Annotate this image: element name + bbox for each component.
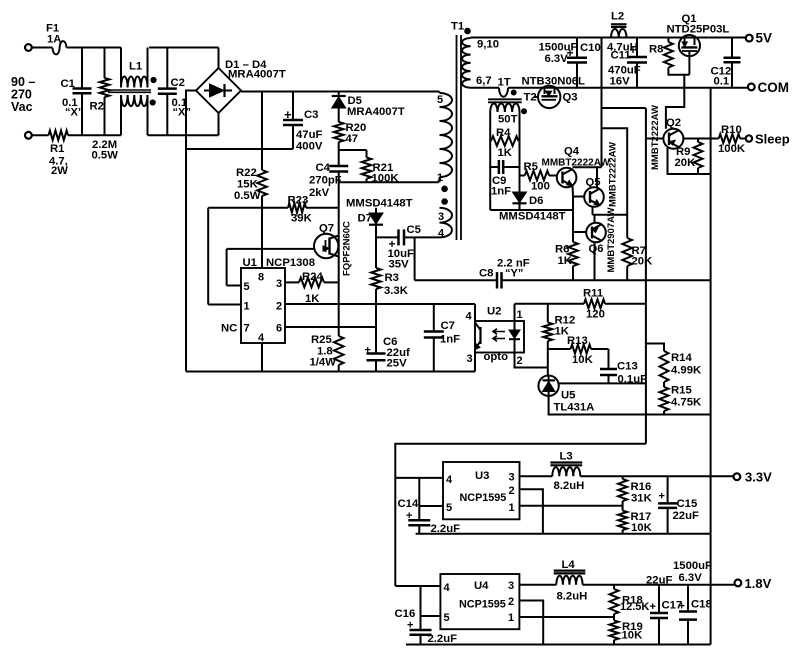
fuse F1: [53, 41, 67, 54]
T2 dot bottom: [522, 109, 527, 114]
AC input terminal top: [25, 44, 32, 51]
bridge rectifier D1-D4: [196, 68, 241, 113]
svg-text:1: 1: [508, 612, 514, 624]
transistor Q4: [557, 168, 577, 188]
resistor R3: [375, 237, 377, 268]
svg-text:C5: C5: [407, 224, 421, 236]
svg-text:4: 4: [466, 311, 473, 323]
svg-text:C1: C1: [61, 78, 75, 90]
svg-text:Q7: Q7: [319, 223, 334, 235]
transistor Q2: [663, 129, 683, 149]
T1 dots mid: [442, 186, 448, 192]
svg-text:R4: R4: [496, 127, 511, 139]
resistor R13 wire: [548, 348, 571, 350]
svg-text:20K: 20K: [632, 256, 654, 268]
svg-text:15K: 15K: [237, 179, 259, 191]
svg-text:U5: U5: [561, 390, 575, 402]
T2 dot top: [511, 90, 516, 95]
svg-text:MMBT2222AW: MMBT2222AW: [608, 142, 619, 207]
svg-text:50T: 50T: [498, 114, 518, 126]
svg-text:U1: U1: [243, 257, 257, 269]
inductor L4: [554, 569, 586, 571]
svg-text:12.5K: 12.5K: [620, 601, 649, 613]
svg-text:2: 2: [517, 355, 523, 367]
resistor R17: [622, 506, 624, 511]
svg-text:U4: U4: [474, 580, 489, 592]
svg-text:+: +: [630, 43, 637, 57]
svg-text:5: 5: [437, 94, 443, 106]
svg-text:L1: L1: [129, 61, 142, 73]
inductor L3: [550, 461, 582, 463]
wire U4 pin2: [519, 601, 543, 645]
wire T1 pin4 to C8 line: [415, 236, 440, 238]
resistor R7: [622, 238, 632, 266]
svg-text:R5: R5: [524, 161, 538, 173]
resistor R20: [334, 122, 344, 142]
MOSFET Q1: [679, 35, 700, 56]
svg-text:NCP1308: NCP1308: [266, 257, 315, 269]
wire R20 to R21: [338, 142, 340, 150]
svg-text:2: 2: [276, 301, 282, 313]
svg-text:C15: C15: [677, 498, 698, 510]
wire R14 top: [646, 344, 664, 352]
wire U5 ref: [559, 382, 646, 384]
svg-text:7: 7: [244, 323, 250, 335]
wire U3 pin4: [395, 477, 443, 479]
svg-text:0.5W: 0.5W: [92, 150, 119, 162]
svg-text:5: 5: [446, 502, 452, 514]
wire opto pin3: [474, 353, 476, 372]
svg-text:NCP1595: NCP1595: [460, 492, 507, 504]
svg-text:2: 2: [508, 596, 514, 608]
wire R7 top: [602, 128, 628, 238]
svg-text:10K: 10K: [631, 522, 653, 534]
svg-text:NTD25P03L: NTD25P03L: [667, 24, 730, 36]
wire driver supply: [601, 38, 603, 168]
svg-text:+: +: [567, 46, 574, 60]
wire T1 pin1 line: [339, 181, 439, 183]
wire bridge plus rail: [241, 91, 440, 93]
capacitor C13: [608, 349, 610, 369]
transformer T1 core: [456, 35, 458, 240]
secondary top rail: [471, 37, 746, 39]
svg-text:6,7: 6,7: [476, 75, 492, 87]
wire Q1 gate: [688, 56, 690, 74]
resistor R2: [104, 48, 106, 79]
svg-text:C10: C10: [580, 42, 601, 54]
resistor R22: [261, 92, 263, 171]
optocoupler U2 box: [475, 321, 524, 353]
transformer T1 primary: [439, 92, 441, 94]
wire Q2 out: [683, 138, 718, 140]
svg-text:2: 2: [509, 485, 515, 497]
resistor R5: [525, 171, 549, 181]
wire U1 pin4: [261, 343, 263, 372]
svg-text:Q4: Q4: [564, 146, 580, 158]
terminal 1.8V: [735, 580, 742, 587]
svg-text:C16: C16: [395, 608, 416, 620]
svg-text:1K: 1K: [558, 255, 573, 267]
MOSFET Q3: [538, 86, 560, 108]
svg-text:6: 6: [276, 323, 282, 335]
svg-text:+: +: [659, 491, 665, 503]
resistor R6: [572, 240, 574, 242]
resistor R25: [338, 282, 340, 336]
wire U1 pin6 line: [285, 326, 376, 328]
capacitor C5: [376, 236, 399, 238]
svg-text:Q3: Q3: [563, 92, 578, 104]
svg-text:3.3V: 3.3V: [745, 470, 772, 485]
svg-text:C11: C11: [611, 50, 631, 62]
primary ground bus: [186, 371, 475, 373]
svg-text:“X”: “X”: [173, 107, 191, 119]
svg-text:20K: 20K: [675, 157, 697, 169]
svg-text:MMSD4148T: MMSD4148T: [499, 211, 566, 223]
svg-text:U3: U3: [475, 470, 489, 482]
COM rail: [471, 87, 499, 89]
svg-text:Vac: Vac: [11, 100, 33, 114]
resistor R11: [584, 299, 605, 308]
wire sense corner: [395, 444, 646, 586]
svg-text:C2: C2: [171, 77, 185, 89]
wire U4 pin4: [395, 585, 440, 587]
resistor R4: [491, 136, 519, 146]
U2 arrows: [493, 329, 505, 335]
svg-text:NCP1595: NCP1595: [459, 599, 506, 611]
svg-text:R25: R25: [311, 334, 332, 346]
svg-text:120: 120: [586, 309, 605, 321]
wire Q2 base: [646, 138, 664, 140]
svg-text:8.2uH: 8.2uH: [554, 480, 585, 492]
svg-text:22uF: 22uF: [673, 510, 699, 522]
wire U1 pin2 line: [285, 303, 475, 305]
svg-text:100: 100: [531, 181, 550, 193]
capacitor C4: [338, 150, 340, 166]
svg-text:+: +: [407, 620, 413, 632]
resistor R24: [299, 278, 324, 288]
diode D6: [519, 176, 521, 193]
svg-text:10K: 10K: [622, 630, 644, 642]
terminal Sleep: [746, 135, 752, 141]
node corner top: [218, 48, 220, 69]
capacitor C15: [667, 476, 669, 503]
svg-text:0.5W: 0.5W: [234, 190, 261, 202]
svg-text:8.2uH: 8.2uH: [557, 591, 588, 603]
transformer T2 core: [488, 98, 522, 100]
svg-text:1nF: 1nF: [440, 334, 460, 346]
resistor R12: [547, 304, 549, 323]
wire Q4 emitter: [572, 186, 575, 240]
svg-text:R10: R10: [721, 124, 742, 136]
diode D7: [375, 208, 377, 213]
svg-text:5V: 5V: [756, 31, 773, 46]
wire U3 pin1: [520, 505, 623, 507]
L1 phase dot top: [151, 77, 156, 82]
svg-text:Q6: Q6: [589, 243, 604, 255]
wire AC top rail: [67, 47, 122, 49]
svg-text:4: 4: [258, 332, 265, 344]
rail 1.8V: [519, 584, 556, 586]
svg-text:D6: D6: [529, 195, 543, 207]
resistor R8: [667, 38, 669, 43]
svg-text:C14: C14: [398, 498, 419, 510]
svg-text:MMBT2907AW: MMBT2907AW: [606, 208, 617, 273]
wire AC bottom rail: [68, 134, 121, 136]
U2 phototransistor: [479, 327, 481, 344]
svg-text:C7: C7: [441, 320, 455, 332]
capacitor C16: [420, 586, 422, 630]
svg-text:1: 1: [509, 502, 515, 514]
wire Q6 emitter: [594, 215, 596, 223]
wire AC top to fuse: [32, 47, 53, 49]
svg-text:TL431A: TL431A: [554, 402, 595, 414]
svg-text:C3: C3: [304, 109, 318, 121]
terminal COM: [748, 84, 755, 91]
AC input terminal bottom: [25, 132, 32, 139]
capacitor C12: [731, 38, 733, 58]
svg-text:opto: opto: [484, 351, 509, 363]
wire Q5 base: [573, 196, 584, 198]
svg-text:270pF: 270pF: [309, 175, 342, 187]
capacitor C3: [292, 92, 294, 121]
svg-text:35V: 35V: [389, 259, 410, 271]
svg-text:“Y”: “Y”: [505, 268, 523, 280]
capacitor C14: [418, 478, 420, 520]
transformer T2 50T winding: [490, 103, 519, 112]
svg-text:1/4W: 1/4W: [310, 357, 337, 369]
U3 ground bus: [416, 533, 711, 535]
wire Q6 base: [573, 231, 586, 233]
svg-text:R8: R8: [649, 44, 663, 56]
svg-text:4.75K: 4.75K: [671, 397, 702, 409]
svg-text:1: 1: [244, 301, 250, 313]
capacitor C17: [658, 585, 660, 613]
svg-text:R3: R3: [385, 272, 399, 284]
resistor R23: [288, 203, 306, 213]
transistor Q6: [586, 223, 606, 243]
capacitor C11: [636, 38, 638, 58]
wire Q4 base: [549, 175, 557, 177]
wire U1 pin1 jog: [207, 208, 209, 305]
svg-text:4: 4: [446, 474, 453, 486]
inductor T2 1T: [499, 88, 508, 97]
svg-text:3: 3: [276, 278, 282, 290]
terminal 5V: [745, 37, 747, 39]
wire opto pin2 jog: [515, 353, 548, 368]
wire sense vertical: [645, 108, 647, 444]
wire Q2 emitter: [668, 148, 711, 174]
wire Q4 collector: [573, 166, 602, 168]
svg-text:R1: R1: [50, 143, 64, 155]
resistor R9: [697, 139, 699, 143]
capacitor C8: [415, 279, 497, 281]
wire T2 left leg2: [489, 141, 491, 167]
svg-text:25V: 25V: [387, 358, 408, 370]
svg-text:+: +: [679, 601, 685, 613]
svg-text:1500uF: 1500uF: [673, 560, 712, 572]
svg-text:MRA4007T: MRA4007T: [228, 69, 286, 81]
inductor L1 bottom winding: [120, 95, 122, 135]
svg-text:D7: D7: [358, 213, 372, 225]
wire U4 pin1: [519, 616, 613, 618]
IC U3 box: [443, 462, 520, 519]
wire T2 left leg: [489, 112, 491, 141]
svg-text:R2: R2: [90, 101, 104, 113]
transformer T1 winding 3-4: [440, 208, 453, 238]
svg-text:C13: C13: [617, 361, 638, 373]
wire U2 pin1 line: [514, 304, 516, 321]
wire C3 bottom: [186, 148, 293, 150]
L1 phase dot bottom: [150, 100, 155, 105]
wire Q7 gate: [227, 248, 314, 250]
svg-text:T1: T1: [451, 21, 464, 33]
svg-text:L3: L3: [560, 451, 573, 463]
resistor R18: [613, 585, 615, 589]
svg-text:NC: NC: [221, 323, 237, 335]
resistor R16: [622, 476, 624, 479]
svg-text:4.99K: 4.99K: [671, 365, 702, 377]
svg-text:3: 3: [467, 353, 473, 365]
svg-text:Q5: Q5: [586, 177, 601, 189]
svg-text:3: 3: [508, 580, 514, 592]
svg-text:R14: R14: [671, 352, 692, 364]
wire T2 right leg: [519, 112, 521, 141]
resistor R23 line: [208, 207, 288, 209]
svg-text:C8: C8: [479, 268, 493, 280]
wire AC bottom to R1: [32, 134, 49, 136]
capacitor C1: [81, 48, 83, 89]
wire U1 pin8: [261, 196, 263, 268]
svg-text:1K: 1K: [498, 147, 513, 159]
diode D5: [338, 92, 340, 97]
U4 ground bus: [406, 644, 711, 646]
svg-text:47: 47: [346, 133, 359, 145]
svg-text:1: 1: [437, 172, 443, 184]
terminal 3.3V: [734, 473, 741, 480]
wire U5 anode: [549, 396, 711, 415]
wire bridge minus: [186, 91, 196, 372]
svg-text:U2: U2: [487, 306, 501, 318]
svg-text:Q2: Q2: [666, 117, 681, 129]
svg-text:10K: 10K: [572, 354, 594, 366]
wire U3 pin2: [520, 489, 543, 534]
MOSFET Q7: [314, 234, 338, 258]
IC U1 box: [241, 268, 285, 343]
svg-text:C4: C4: [316, 162, 331, 174]
svg-text:R13: R13: [567, 335, 588, 347]
svg-text:R6: R6: [555, 244, 569, 256]
wire emitters: [593, 214, 628, 216]
svg-text:16V: 16V: [610, 76, 631, 88]
svg-text:COM: COM: [758, 80, 790, 95]
resistor R15: [663, 382, 665, 387]
svg-text:4: 4: [444, 582, 451, 594]
transformer T1 secondary: [470, 37, 472, 40]
wire Q7 channel: [338, 234, 340, 282]
wire T2 left leg3: [489, 167, 491, 210]
IC U4 box: [440, 574, 519, 629]
svg-text:R22: R22: [236, 167, 257, 179]
svg-text:1.8V: 1.8V: [745, 576, 772, 591]
wire AC bottom rail 2: [148, 134, 219, 136]
svg-text:+: +: [284, 107, 292, 122]
svg-text:47uF: 47uF: [296, 129, 322, 141]
svg-text:39K: 39K: [291, 213, 313, 225]
svg-text:2W: 2W: [51, 165, 68, 177]
rail 3.3V: [520, 475, 553, 477]
capacitor C18: [687, 585, 689, 612]
svg-text:“X”: “X”: [65, 107, 83, 119]
svg-text:2.2uF: 2.2uF: [428, 633, 458, 645]
wire Q5 emitter: [592, 207, 594, 215]
resistor R1: [49, 131, 69, 141]
svg-text:22uF: 22uF: [646, 575, 672, 587]
svg-text:Sleep: Sleep: [755, 132, 790, 147]
svg-text:FQPF2N60C: FQPF2N60C: [342, 221, 353, 276]
svg-text:9,10: 9,10: [477, 39, 499, 51]
svg-text:R24: R24: [302, 271, 323, 283]
capacitor C10: [576, 38, 578, 58]
resistor R24 wire: [285, 281, 299, 283]
capacitor C9: [490, 166, 499, 168]
inductor L2: [611, 23, 627, 25]
svg-text:5: 5: [444, 612, 450, 624]
svg-text:MMSD4148T: MMSD4148T: [346, 198, 413, 210]
resistor R13: [571, 345, 591, 354]
svg-text:1nF: 1nF: [491, 186, 511, 198]
svg-text:R23: R23: [288, 195, 309, 207]
wire U4 pin5: [421, 615, 441, 617]
resistor R19: [613, 617, 615, 620]
svg-text:3: 3: [438, 211, 444, 223]
wire main HV vertical: [338, 182, 340, 234]
svg-text:1: 1: [517, 309, 523, 321]
inductor L1 core: [108, 89, 151, 91]
svg-text:3: 3: [509, 472, 515, 484]
svg-text:+: +: [650, 601, 656, 613]
wire R15 bottom link: [646, 414, 711, 416]
wire U3 pin5: [419, 505, 443, 507]
svg-text:3.3K: 3.3K: [384, 285, 409, 297]
resistor R14: [660, 351, 669, 382]
svg-text:+: +: [365, 345, 371, 357]
svg-text:5: 5: [244, 281, 250, 293]
svg-text:31K: 31K: [631, 493, 653, 505]
resistor R5 wire: [520, 175, 525, 177]
svg-text:R11: R11: [583, 288, 603, 300]
capacitor C2: [166, 48, 168, 89]
svg-text:MRA4007T: MRA4007T: [347, 106, 405, 118]
wire R10 to sleep: [740, 138, 746, 140]
capacitor C6: [367, 352, 386, 355]
svg-text:R16: R16: [631, 481, 652, 493]
svg-text:400V: 400V: [296, 141, 323, 153]
T1 phase dot: [465, 28, 471, 34]
U2 LED: [514, 321, 516, 330]
resistor R21: [362, 158, 372, 179]
resistor R10: [719, 134, 740, 143]
transistor Q5: [584, 187, 604, 207]
svg-text:+: +: [406, 510, 412, 522]
svg-text:6.3V: 6.3V: [545, 53, 569, 65]
svg-text:2kV: 2kV: [309, 187, 330, 199]
inductor L1 top winding: [120, 48, 122, 88]
wire COM drop lower: [710, 534, 712, 645]
svg-text:8: 8: [258, 272, 264, 284]
shunt regulator U5: [538, 376, 558, 396]
wire Q5 collector: [596, 167, 598, 188]
wire T2 right leg2: [519, 141, 521, 176]
